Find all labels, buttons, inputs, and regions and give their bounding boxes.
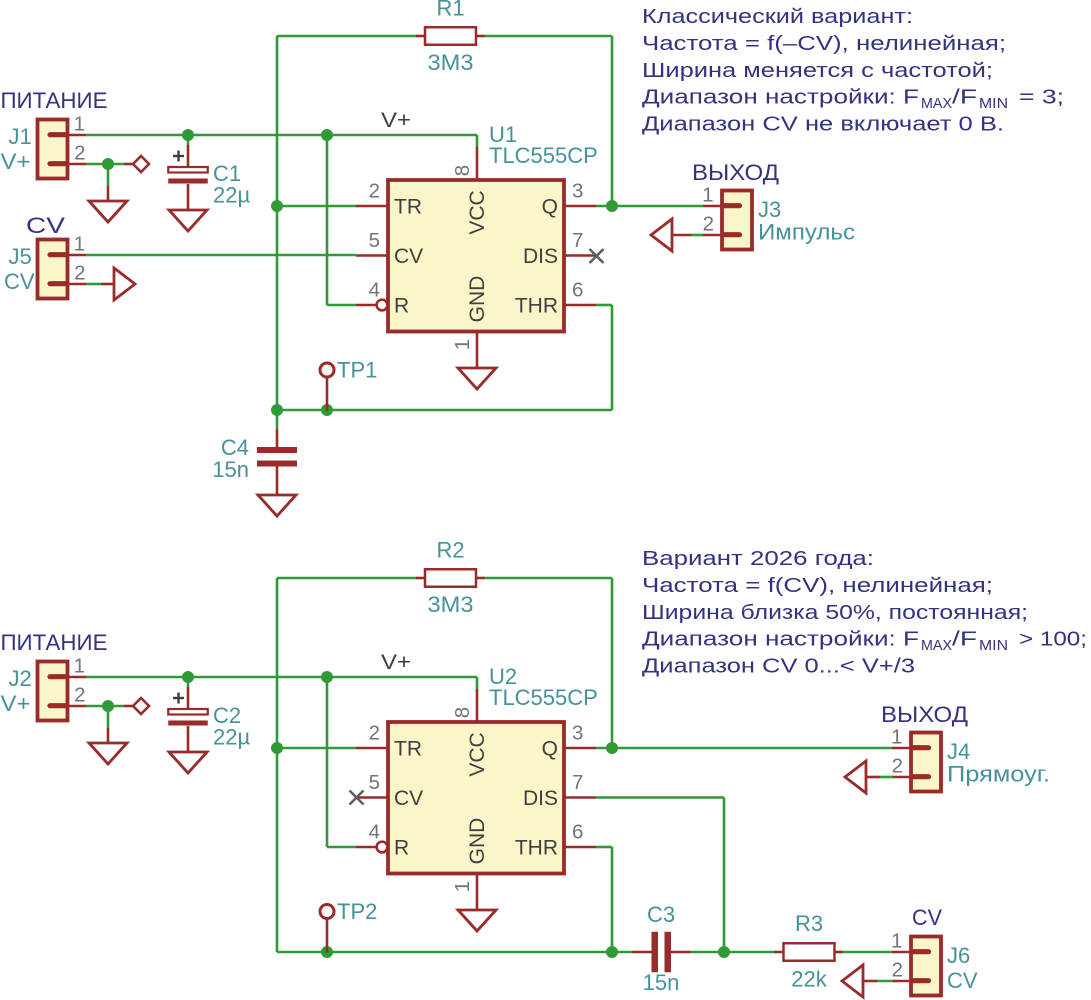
- svg-text:1: 1: [451, 339, 474, 350]
- svg-text:J4: J4: [947, 739, 970, 764]
- svg-text:GND: GND: [466, 818, 489, 865]
- label ВЫХОД (J3): [692, 160, 779, 185]
- resistor R1 3M3: [416, 27, 485, 45]
- svg-text:1: 1: [74, 655, 85, 678]
- svg-text:3: 3: [572, 180, 583, 203]
- connector J1 ПИТАНИЕ: [38, 120, 87, 179]
- svg-text:THR: THR: [515, 837, 558, 860]
- svg-text:J5: J5: [9, 244, 32, 269]
- power flag (diamond): [133, 156, 149, 172]
- ground symbol at C1: [169, 210, 207, 231]
- C3 value 15n: [643, 970, 680, 995]
- svg-text:TR: TR: [394, 738, 422, 761]
- svg-text:1: 1: [451, 881, 474, 892]
- svg-text:2: 2: [892, 755, 903, 778]
- wire V+ to C1: [187, 135, 190, 167]
- flag at J6 pin 2: [842, 965, 863, 997]
- ground symbol at J2: [89, 743, 127, 764]
- connector J3 ВЫХОД: [703, 191, 752, 250]
- svg-text:CV: CV: [947, 968, 978, 993]
- svg-text:TP2: TP2: [337, 899, 377, 924]
- J3 value Импульс: [758, 220, 855, 245]
- wire R2 to output node: [485, 578, 613, 748]
- svg-text:MIN: MIN: [979, 96, 1008, 112]
- J1 pin numbers: [74, 113, 86, 165]
- svg-text:VCC: VCC: [466, 732, 489, 776]
- junction V+ at C2: [182, 671, 194, 683]
- notes text block 1: [642, 6, 1064, 136]
- TP2 label: [337, 899, 377, 924]
- ground symbol at C2: [169, 752, 207, 773]
- U2 reference: [489, 664, 517, 689]
- junction DIS bottom: [718, 946, 730, 958]
- label CV (J5): [26, 213, 65, 238]
- svg-text:TLC555CP: TLC555CP: [489, 685, 598, 710]
- U1 reference: [489, 122, 517, 147]
- J4 value Прямоуг.: [947, 762, 1050, 787]
- svg-text:CV: CV: [394, 787, 423, 810]
- wire V+ rail: [86, 135, 477, 148]
- capacitor C2 22u polarized: [168, 693, 208, 726]
- wire J5 pin1 to CV pin5: [86, 254, 357, 257]
- svg-text:Частота = f(–CV), нелинейная;: Частота = f(–CV), нелинейная;: [642, 33, 1006, 55]
- svg-text:4: 4: [369, 821, 380, 844]
- wire stub to power flag: [124, 705, 133, 708]
- svg-text:R: R: [394, 837, 409, 860]
- C2 reference: [213, 703, 241, 728]
- svg-text:3M3: 3M3: [428, 592, 474, 617]
- J6 reference: [947, 943, 970, 968]
- wire R1 to output node: [485, 36, 613, 206]
- C2 value 22µ: [213, 725, 250, 750]
- svg-text:7: 7: [572, 229, 583, 252]
- C3 reference: [647, 902, 675, 927]
- wire Q to J3: [596, 205, 703, 208]
- power flag (diamond): [133, 698, 149, 714]
- wire C4 stub: [276, 410, 279, 447]
- test point TP2: [320, 905, 334, 953]
- junction THR bottom: [606, 946, 618, 958]
- svg-text:5: 5: [369, 229, 380, 252]
- svg-text:C3: C3: [647, 902, 675, 927]
- svg-text:J3: J3: [758, 197, 781, 222]
- connector J2 ПИТАНИЕ: [38, 662, 87, 721]
- svg-text:TR: TR: [394, 196, 422, 219]
- R2 value 3M3: [428, 592, 474, 617]
- svg-text:1: 1: [891, 930, 902, 953]
- svg-text:Q: Q: [542, 738, 558, 761]
- svg-text:2: 2: [369, 722, 380, 745]
- svg-text:6: 6: [572, 821, 583, 844]
- svg-text:R3: R3: [795, 911, 823, 936]
- no-connect at U2 pin 5 CV: [350, 791, 364, 805]
- wire V+ branch down to R pin: [327, 677, 357, 847]
- R2 reference: [436, 538, 464, 563]
- svg-text:2: 2: [74, 262, 85, 285]
- wire TR net: [277, 747, 357, 750]
- svg-text:J1: J1: [9, 124, 32, 149]
- ground symbol at C4: [258, 495, 296, 516]
- svg-text:15n: 15n: [212, 457, 249, 482]
- wire IC pin1 to ground: [476, 358, 479, 368]
- svg-text:V+: V+: [1, 149, 31, 174]
- svg-text:6: 6: [572, 279, 583, 302]
- junction TP1: [321, 404, 333, 416]
- svg-text:GND: GND: [466, 276, 489, 323]
- U1 value TLC555CP: [489, 143, 598, 168]
- label ПИТАНИЕ (J1): [1, 88, 108, 113]
- R3 value 22k: [791, 967, 827, 992]
- J4 reference: [947, 739, 970, 764]
- svg-text:1: 1: [891, 726, 902, 749]
- wire DIS to bottom node: [596, 798, 724, 953]
- label V+ on rail: [381, 109, 411, 132]
- connector J6 CV: [892, 937, 941, 996]
- R3 reference: [795, 911, 823, 936]
- svg-text:Диапазон настройки: F: Диапазон настройки: F: [642, 629, 919, 651]
- svg-text:3M3: 3M3: [428, 50, 474, 75]
- junction Q output 2: [606, 742, 618, 754]
- svg-text:2: 2: [369, 180, 380, 203]
- svg-text:1: 1: [702, 184, 713, 207]
- svg-text:Ширина близка 50%, постоянная;: Ширина близка 50%, постоянная;: [642, 602, 1028, 624]
- svg-text:3: 3: [572, 722, 583, 745]
- connector J4 ВЫХОД: [892, 733, 941, 792]
- svg-text:TP1: TP1: [337, 358, 377, 383]
- wire left vertical to R1: [277, 36, 418, 206]
- svg-text:R2: R2: [436, 538, 464, 563]
- junction V+ at C1: [182, 129, 194, 141]
- svg-text:/F: /F: [952, 629, 977, 651]
- svg-text:R1: R1: [436, 0, 464, 21]
- svg-text:J2: J2: [9, 666, 32, 691]
- svg-text:MIN: MIN: [979, 638, 1008, 654]
- U2 value TLC555CP: [489, 685, 598, 710]
- svg-text:R: R: [394, 295, 409, 318]
- J3 pin numbers: [702, 184, 714, 236]
- wire C2 to ground: [187, 726, 190, 752]
- svg-text:CV: CV: [4, 269, 35, 294]
- label ПИТАНИЕ (J2): [1, 630, 108, 655]
- svg-text:22µ: 22µ: [213, 725, 250, 750]
- svg-text:Диапазон настройки: F: Диапазон настройки: F: [642, 87, 919, 109]
- svg-text:ВЫХОД: ВЫХОД: [881, 702, 968, 727]
- svg-text:/F: /F: [952, 87, 977, 109]
- label ВЫХОД (J4): [881, 702, 968, 727]
- junction TR / left vertical: [271, 200, 283, 212]
- junction V+ branch to R pin: [321, 129, 333, 141]
- connector J5 CV: [38, 240, 87, 299]
- ground symbol at U1 pin 1: [458, 368, 496, 389]
- svg-text:DIS: DIS: [523, 787, 558, 810]
- timer U2 TLC555CP: [356, 689, 596, 900]
- wire J pin2 to ground: [86, 706, 124, 743]
- svg-text:TLC555CP: TLC555CP: [489, 143, 598, 168]
- capacitor C4 15n: [257, 447, 297, 467]
- svg-text:2: 2: [892, 959, 903, 982]
- wire TR net: [277, 205, 357, 208]
- wire V+ to C2: [187, 677, 190, 709]
- J5 value CV: [4, 269, 35, 294]
- no-connect at U1 pin 7 DIS: [590, 249, 604, 263]
- J2 pin numbers: [74, 655, 86, 707]
- svg-text:CV: CV: [912, 905, 942, 930]
- svg-text:15n: 15n: [643, 970, 680, 995]
- svg-text:ПИТАНИЕ: ПИТАНИЕ: [1, 630, 108, 655]
- svg-text:V+: V+: [381, 651, 411, 674]
- J2 reference: [9, 666, 32, 691]
- svg-text:CV: CV: [26, 213, 65, 238]
- wire THR to bottom node: [596, 847, 612, 952]
- wire stub to power flag: [124, 163, 133, 166]
- wire V+ rail: [86, 677, 477, 690]
- wire J3 pin2 stub: [672, 234, 703, 237]
- timer U1 TLC555CP: [356, 147, 596, 358]
- junction pin2/ground: [102, 158, 114, 170]
- svg-text:2: 2: [74, 142, 85, 165]
- label V+ on rail: [381, 651, 411, 674]
- J2 value V+: [1, 691, 31, 716]
- capacitor C1 22u polarized: [168, 151, 208, 184]
- svg-text:DIS: DIS: [523, 245, 558, 268]
- wire DIS node to R3: [724, 951, 776, 954]
- svg-text:= 3;: = 3;: [1019, 87, 1064, 109]
- notes text block 2: [642, 548, 1087, 678]
- J6 value CV: [947, 968, 978, 993]
- svg-text:Прямоуг.: Прямоуг.: [947, 762, 1050, 787]
- wire to C3: [612, 951, 652, 954]
- svg-text:ВЫХОД: ВЫХОД: [692, 160, 779, 185]
- wire V+ branch down to R pin: [327, 135, 357, 305]
- svg-text:8: 8: [451, 165, 474, 176]
- wire Q to J4: [596, 747, 893, 750]
- svg-text:5: 5: [369, 771, 380, 794]
- wire left vertical to R2: [277, 578, 418, 748]
- test point TP1: [320, 363, 334, 411]
- C1 value 22µ: [213, 183, 250, 208]
- svg-text:MAX: MAX: [921, 96, 952, 112]
- R1 reference: [436, 0, 464, 21]
- wire J pin2 to ground: [86, 164, 124, 201]
- R1 value 3M3: [428, 50, 474, 75]
- svg-text:V+: V+: [381, 109, 411, 132]
- junction TR / left vertical: [271, 742, 283, 754]
- svg-text:Частота = f(CV), нелинейная;: Частота = f(CV), нелинейная;: [642, 575, 993, 597]
- wire J6 pin2 stub: [863, 980, 893, 983]
- resistor R2 3M3: [416, 569, 485, 587]
- J1 value V+: [1, 149, 31, 174]
- junction TP2: [321, 946, 333, 958]
- C4 reference: [221, 435, 249, 460]
- J3 reference: [758, 197, 781, 222]
- wire C1 to ground: [187, 184, 190, 210]
- wire J5 pin2 stub: [86, 283, 114, 286]
- J6 pin numbers: [891, 930, 903, 982]
- resistor R3 22k: [775, 943, 844, 961]
- junction V+ branch to R pin: [321, 671, 333, 683]
- svg-text:2: 2: [74, 684, 85, 707]
- svg-text:22k: 22k: [791, 967, 827, 992]
- svg-text:Импульс: Импульс: [758, 220, 855, 245]
- junction Q output: [606, 200, 618, 212]
- wire C3 to DIS node: [671, 951, 724, 954]
- label CV (J6): [912, 905, 942, 930]
- svg-text:Ширина меняется с частотой;: Ширина меняется с частотой;: [642, 60, 993, 82]
- svg-text:22µ: 22µ: [213, 183, 250, 208]
- junction C4 top: [271, 404, 283, 416]
- TP1 label: [337, 358, 377, 383]
- svg-text:Классический вариант:: Классический вариант:: [642, 6, 913, 28]
- svg-text:ПИТАНИЕ: ПИТАНИЕ: [1, 88, 108, 113]
- J4 pin numbers: [891, 726, 903, 778]
- capacitor C3 15n: [652, 932, 672, 973]
- svg-text:1: 1: [74, 113, 85, 136]
- svg-text:Диапазон CV 0...< V+/3: Диапазон CV 0...< V+/3: [642, 656, 915, 678]
- junction pin2/ground: [102, 700, 114, 712]
- svg-text:7: 7: [572, 771, 583, 794]
- svg-text:THR: THR: [515, 295, 558, 318]
- svg-text:Диапазон CV не включает 0 В.: Диапазон CV не включает 0 В.: [642, 114, 1004, 136]
- svg-text:V+: V+: [1, 691, 31, 716]
- ground symbol at U2 pin 1: [458, 910, 496, 931]
- wire R3 to J6: [843, 951, 894, 954]
- svg-text:2: 2: [703, 213, 714, 236]
- svg-text:> 100;: > 100;: [1019, 629, 1087, 651]
- wire bottom node: [277, 206, 612, 410]
- wire bottom node left: [277, 748, 612, 952]
- C4 value 15n: [212, 457, 249, 482]
- J5 pin numbers: [74, 233, 86, 285]
- wire THR to bottom node: [596, 305, 612, 410]
- flag at J4 pin 2: [845, 761, 866, 793]
- wire IC pin1 to ground: [476, 900, 479, 910]
- svg-text:Q: Q: [542, 196, 558, 219]
- svg-text:J6: J6: [947, 943, 970, 968]
- svg-text:Вариант 2026 года:: Вариант 2026 года:: [642, 548, 874, 570]
- svg-text:MAX: MAX: [921, 638, 952, 654]
- svg-text:CV: CV: [394, 245, 423, 268]
- svg-text:VCC: VCC: [466, 190, 489, 234]
- svg-text:8: 8: [451, 707, 474, 718]
- ground symbol at J1: [89, 201, 127, 222]
- flag at J3 pin 2: [651, 219, 672, 251]
- J1 reference: [9, 124, 32, 149]
- flag at J5 pin 2: [114, 268, 135, 300]
- wire C4 to ground: [276, 467, 279, 496]
- C1 reference: [213, 161, 241, 186]
- svg-text:4: 4: [369, 279, 380, 302]
- svg-text:1: 1: [74, 233, 85, 256]
- J5 reference: [9, 244, 32, 269]
- wire J4 pin2 stub: [866, 776, 893, 779]
